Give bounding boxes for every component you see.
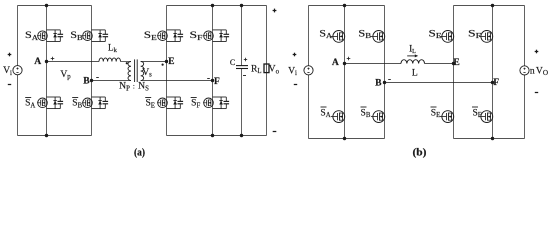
label + (a, output) [273,9,277,13]
svg-text:C: C [230,58,235,67]
label S_B-bar [72,98,82,110]
inductor L [401,60,425,64]
label - (b, node B) [388,79,391,81]
svg-text:Lk: Lk [108,43,118,55]
label S_E [144,30,157,42]
label S_A-bar (b) [320,107,330,119]
label R_L [251,63,262,75]
transistor S_F (b) [479,31,493,43]
label + (a, node A) [51,57,55,61]
label E (a) [168,56,174,67]
voltage source nV_O [520,66,529,75]
transistor S_B-bar [82,97,108,109]
svg-text:SF: SF [468,29,481,41]
transistor S_F-bar (b) [479,111,493,123]
label F (a) [214,76,220,87]
node B (a) [90,79,93,82]
wire: inductor to node E [425,63,454,65]
svg-text:A: A [332,57,339,68]
label V_i (a) [3,65,12,77]
svg-text:SB: SB [361,107,371,119]
label + (b, V_i) [293,53,297,57]
transistor S_F-bar [203,97,229,109]
wire: (b) left-bridge top rail [309,5,385,7]
node: (a) bottom-rail junction at C branch [240,134,243,137]
svg-text:(b): (b) [413,147,427,158]
svg-text:Vi: Vi [288,65,297,77]
wire: (a) left-bridge top rail [18,5,92,7]
label S_E-bar [145,98,155,110]
label S_E-bar (b) [431,107,441,119]
svg-text:E: E [168,56,174,67]
wire: (a) C branch [241,6,243,136]
label C [230,58,235,67]
voltage source V_i (b) [304,66,313,75]
svg-text:Vi: Vi [3,65,12,77]
label + (a, C) [244,58,247,61]
transistor S_A [37,30,63,42]
svg-text:RL: RL [251,63,262,75]
label V_s [142,67,152,79]
wire: node A to L_k [47,61,100,63]
label V_i (b) [288,65,297,77]
svg-text:NP: NP [119,81,130,93]
label S_A-bar [25,98,35,110]
label E (b) [453,57,459,68]
label A (b) [332,57,339,68]
wire: (b) leg A [344,6,346,139]
transistor S_F [203,30,229,42]
wire: (b) leg E [453,6,455,139]
transistor S_E (b) [440,31,454,43]
node F (a) [211,79,214,82]
wire: (b) right-bridge bottom rail [454,138,525,140]
wire: L_k to transformer primary [121,61,132,63]
wire: (a) right-bridge bottom rail [167,135,267,137]
label S_B-bar (b) [361,107,371,119]
svg-text:SE: SE [431,107,441,119]
svg-text:B: B [375,77,382,88]
wire: (a) leg B (S_B/S_B-bar) [91,6,93,136]
svg-text:B: B [83,76,90,87]
transistor S_B (b) [371,31,385,43]
svg-text:SB: SB [72,98,82,110]
svg-text:E: E [453,57,459,68]
svg-text:SE: SE [145,98,155,110]
svg-text:Vo: Vo [269,64,280,76]
wire: (a) leg F (S_F/S_F-bar) [212,6,214,136]
transformer T1 primary polarity dot [126,62,128,64]
label S_B (b) [358,29,372,41]
label S_A [25,30,38,42]
node: (b) bottom-rail junction at leg S_A [343,137,346,140]
label + (b, nV_O) [535,50,539,54]
node A (b) [343,62,346,65]
wire: (b) right-bridge top rail [454,5,525,7]
svg-text:SF: SF [472,107,481,119]
svg-text:SA: SA [319,29,332,41]
node: (a) top-rail junction at leg S_F [211,4,214,7]
transistor S_A-bar [37,97,63,109]
transistor S_E-bar (b) [440,111,454,123]
label - (b, nV_O) [535,92,538,94]
label - (a, C) [243,75,246,77]
wire: transformer secondary to node E [141,61,167,63]
label - (b, V_i) [294,84,297,86]
svg-text:SE: SE [429,29,442,41]
svg-text:SA: SA [320,107,330,119]
wire: (a) leg E (S_E/S_E-bar) [166,6,168,136]
svg-text:SB: SB [70,30,83,42]
svg-text:F: F [214,76,220,87]
label L_k [108,43,118,55]
wire: (a) V_i branch [17,6,19,136]
wire: node B to transformer primary [92,80,132,82]
wire: (a) right-bridge top rail [167,5,267,7]
label I_L [409,44,416,56]
node: (b) bottom-rail junction at leg S_F [491,137,494,140]
svg-text:F: F [493,77,499,88]
node: (a) bottom-rail junction at leg S_A [45,134,48,137]
node A (a) [45,60,48,63]
label S_F-bar [191,98,201,110]
transistor S_B-bar (b) [371,111,385,123]
label V_p [60,69,71,81]
transistor S_E-bar [157,97,183,109]
label B (a) [83,76,90,87]
node: (a) bottom-rail junction at leg S_F [211,134,214,137]
label - (a, node F) [207,78,210,80]
label F (b) [493,77,499,88]
wire: (b) node A to inductor [345,63,402,65]
label S_E (b) [429,29,442,41]
label S_A (b) [319,29,332,41]
wire: (b) left-bridge bottom rail [309,138,385,140]
node B (b) [383,81,386,84]
transistor S_A-bar (b) [331,111,345,123]
svg-text:(a): (a) [134,147,145,158]
svg-text:NS: NS [138,81,149,93]
transformer T1 core [135,59,138,82]
label S_B [70,30,83,42]
node: (b) top-rail junction at leg S_A [343,4,346,7]
wire: transformer secondary to node F [141,80,213,82]
svg-text:A: A [34,56,41,67]
label V_o [269,64,280,76]
label N_P : N_S [119,81,149,93]
node E (b) [452,62,455,65]
svg-text:SF: SF [191,98,200,110]
inductor L_k [99,58,121,62]
wire: (b) leg F [492,6,494,139]
svg-text:SA: SA [25,30,38,42]
node F (b) [491,81,494,84]
wire: (a) left-bridge bottom rail [18,135,92,137]
svg-text:SB: SB [358,29,372,41]
wire: (b) node B to node F [385,82,493,84]
transistor S_B [82,30,108,42]
label - (a, node B) [96,77,99,79]
wire: (b) leg B [384,6,386,139]
svg-text:VO: VO [536,65,548,77]
node: (a) top-rail junction at leg S_A [45,4,48,7]
label S_F-bar (b) [472,107,482,119]
transistor S_A (b) [331,31,345,43]
svg-text:SE: SE [144,30,157,42]
transformer T1 secondary winding [141,62,144,81]
label B (b) [375,77,382,88]
svg-text::: : [133,83,135,91]
svg-text:Vp: Vp [60,69,71,81]
svg-text:SF: SF [190,30,203,42]
svg-text:Vs: Vs [142,67,152,79]
wire: (a) output branch [266,6,268,136]
label - (a, output) [273,131,277,133]
label (b) [413,147,427,158]
label + (a, V_i) [8,53,12,57]
label S_F [190,30,203,42]
svg-text:SA: SA [25,98,35,110]
label L [412,68,418,79]
label + (b, node A) [347,57,351,61]
label - (a, V_i) [8,84,11,86]
current arrow I_L [407,54,418,57]
svg-text:IL: IL [409,44,416,56]
voltage source V_i (a) [13,66,22,75]
svg-text:L: L [412,68,418,79]
label S_F (b) [468,29,481,41]
label (a) [134,147,145,158]
transformer T1 primary winding [128,62,131,81]
label nV_O [530,65,548,77]
wire: (a) leg A (S_A/S_A-bar) [46,6,48,136]
capacitor C [236,66,248,69]
svg-text:n: n [530,65,535,76]
wire: (b) V_i branch [308,6,310,139]
resistor R_L [264,64,269,73]
transistor S_E [157,30,183,42]
node: (b) top-rail junction at leg S_F [491,4,494,7]
node E (a) [165,60,168,63]
label A (a) [34,56,41,67]
transformer T1 secondary polarity dot [162,64,164,66]
node: (a) top-rail junction at C branch [240,4,243,7]
wire: (b) nV_O branch [524,6,526,139]
